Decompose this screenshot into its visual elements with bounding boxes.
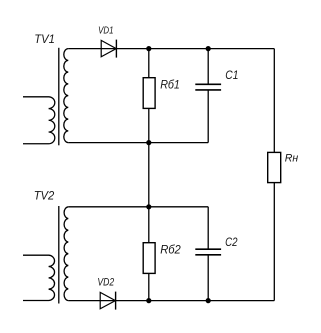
wire: C2 vertical branch	[207, 207, 209, 301]
resistor RH (load) body	[268, 152, 281, 182]
wire: C1 vertical branch	[207, 49, 209, 143]
transformer TV1 secondary winding	[64, 49, 69, 143]
wire: middle rail 2 (TV2 secondary top to C2 top corner)	[68, 206, 208, 208]
wire: right rail down to load resistor	[273, 49, 275, 301]
diode VD2 cathode bar	[115, 292, 117, 310]
transformer TV2 secondary winding	[64, 207, 68, 301]
diode VD1 cathode bar	[115, 40, 117, 58]
svg-text:VD2: VD2	[97, 276, 114, 288]
wire: top rail from TV1 secondary through VD1 to top-right corner	[68, 48, 274, 50]
wire: middle rail 1 (TV1 secondary bottom to C1 bottom corner)	[68, 142, 208, 144]
wire: vertical branch through R61, link node, R62	[148, 49, 150, 301]
node: junction bottom rail / R62 bottom	[146, 298, 151, 303]
svg-text:Rб2: Rб2	[160, 242, 181, 256]
diode VD2 triangle	[100, 292, 115, 308]
node: junction top rail / C1	[206, 46, 211, 51]
capacitor C2 plates	[195, 249, 221, 255]
svg-text:VD1: VD1	[98, 26, 113, 37]
node: junction top rail / R61	[146, 46, 151, 51]
resistor R61 body	[143, 78, 155, 109]
transformer TV2 core	[58, 206, 60, 304]
svg-text:TV1: TV1	[34, 32, 55, 46]
node: junction mid rail 1 / R61 bottom	[146, 140, 151, 145]
wire: bottom rail from TV2 secondary through VD2 to bottom-right corner	[68, 300, 274, 302]
node: junction mid rail 2 / R62 top	[146, 204, 151, 209]
transformer TV1 core	[58, 48, 60, 146]
node: junction bottom rail / C2	[206, 298, 211, 303]
svg-text:Rб1: Rб1	[160, 77, 180, 91]
resistor R62 body	[143, 243, 155, 274]
diode VD1 triangle	[101, 40, 116, 56]
transformer TV1 primary winding	[23, 97, 55, 144]
svg-text:C1: C1	[225, 68, 238, 82]
capacitor C1 plates	[195, 84, 221, 90]
svg-text:C2: C2	[225, 235, 238, 249]
svg-text:Rн: Rн	[285, 153, 298, 165]
svg-text:TV2: TV2	[34, 188, 55, 202]
transformer TV2 primary winding	[23, 255, 55, 300]
